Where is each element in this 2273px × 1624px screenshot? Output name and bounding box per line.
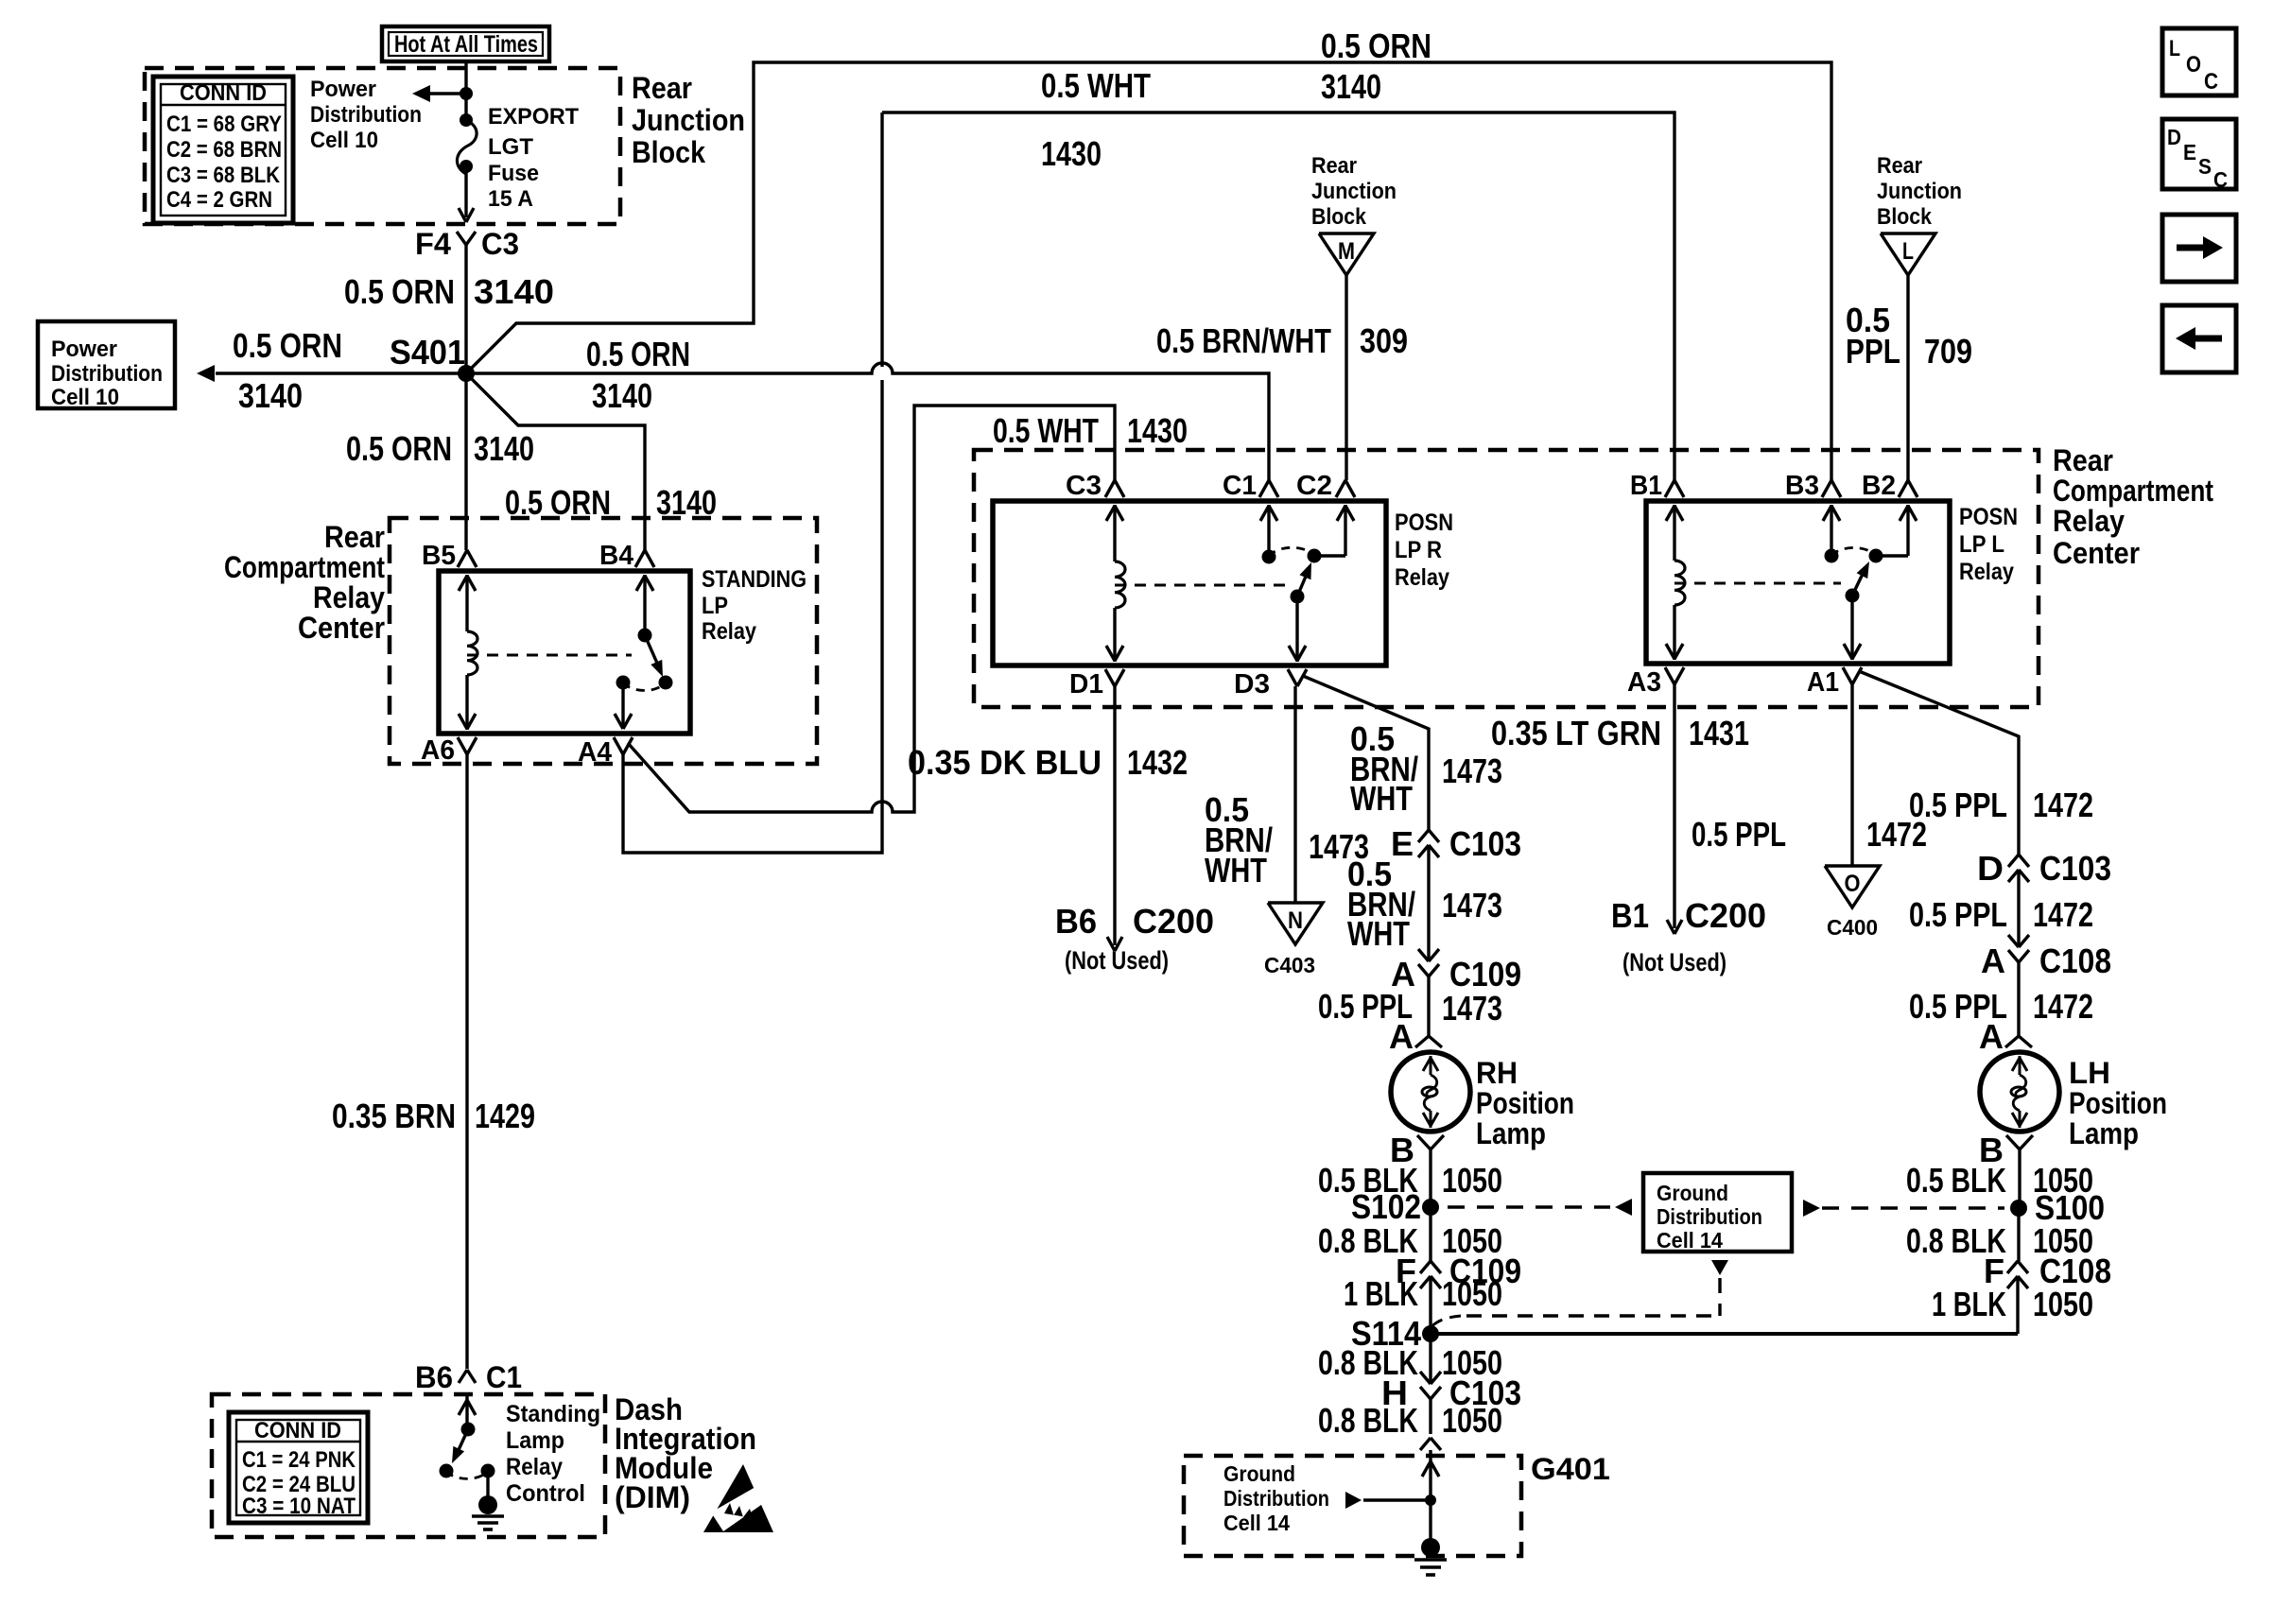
svg-text:C103: C103 [2039, 849, 2111, 888]
wire: 0.5 BRN/WHT 1473 E to A C109 [1347, 845, 1502, 961]
lamp pin A (LH) [1979, 1017, 2032, 1056]
svg-text:0.5 ORN: 0.5 ORN [346, 429, 452, 468]
svg-text:O: O [1845, 871, 1861, 897]
relay U1: STANDING LP Relay box [439, 571, 690, 734]
dashed drop: Ground Distribution to S114 run [1429, 1260, 1728, 1330]
svg-text:Center: Center [2053, 536, 2140, 570]
wire: battery feed into fuse [464, 61, 467, 120]
dashed enclosure: G401 ground distribution [1184, 1452, 1610, 1556]
junction block connector M [1319, 233, 1374, 275]
svg-text:PPL: PPL [1846, 332, 1900, 371]
svg-text:CONN ID: CONN ID [254, 1418, 341, 1443]
svg-text:E: E [2183, 140, 2196, 164]
svg-text:Rear: Rear [324, 520, 385, 554]
svg-text:C3 = 10 NAT: C3 = 10 NAT [242, 1494, 356, 1519]
svg-text:(Not Used): (Not Used) [1065, 946, 1169, 975]
pin B5 [422, 541, 477, 571]
relay U3 coil path [1666, 505, 1685, 660]
svg-text:LP: LP [702, 593, 728, 619]
svg-text:309: 309 [1360, 321, 1408, 360]
svg-text:0.5 PPL: 0.5 PPL [1909, 786, 2007, 824]
svg-text:L: L [1902, 238, 1914, 265]
CONN ID table (DIM) [229, 1412, 368, 1523]
svg-text:1050: 1050 [1442, 1161, 1502, 1200]
svg-text:1429: 1429 [475, 1097, 535, 1135]
svg-text:Distribution: Distribution [1223, 1486, 1329, 1511]
legend box LOC [2162, 28, 2236, 95]
svg-text:0.5 ORN: 0.5 ORN [233, 326, 342, 365]
svg-text:3140: 3140 [474, 272, 554, 311]
svg-text:0.5 PPL: 0.5 PPL [1909, 895, 2007, 934]
legend box arrow left [2162, 305, 2236, 372]
svg-text:WHT: WHT [1205, 851, 1267, 890]
svg-text:1430: 1430 [1041, 134, 1102, 173]
pin A1 [1807, 667, 1862, 698]
svg-text:C1 = 68 GRY: C1 = 68 GRY [166, 112, 282, 137]
svg-text:Cell 10: Cell 10 [310, 128, 378, 153]
pin B1 [1630, 471, 1684, 501]
svg-text:3140: 3140 [1321, 67, 1381, 106]
svg-text:Distribution: Distribution [310, 102, 422, 128]
svg-text:E: E [1391, 824, 1414, 863]
svg-text:Rear: Rear [1877, 153, 1922, 179]
relay U3: POSN LP L Relay box [1646, 501, 1950, 664]
wire: 0.5 ORN 3140 S401 down to relay B5 [346, 373, 534, 550]
pin B4 [599, 541, 654, 571]
svg-text:S102: S102 [1351, 1187, 1421, 1226]
svg-text:Ground: Ground [1223, 1461, 1295, 1486]
svg-text:0.5 ORN: 0.5 ORN [344, 272, 455, 311]
arrow to Power Distribution Cell 10 [412, 85, 466, 102]
svg-text:1050: 1050 [2033, 1285, 2093, 1323]
svg-text:1430: 1430 [1127, 411, 1188, 450]
relay U2: POSN LP R Relay box [993, 501, 1386, 665]
svg-text:Power: Power [310, 77, 376, 102]
wire: 0.5 BRN/WHT 309 from M to relay C2 [1156, 275, 1408, 480]
svg-text:1472: 1472 [2033, 895, 2093, 934]
dashed enclosure: Rear Junction Block [145, 68, 620, 224]
svg-text:0.5 PPL: 0.5 PPL [1692, 815, 1786, 854]
svg-text:RH: RH [1476, 1056, 1518, 1090]
svg-text:0.8 BLK: 0.8 BLK [1318, 1401, 1418, 1440]
svg-text:N: N [1288, 907, 1303, 934]
pin A4 [578, 737, 633, 768]
wire: 0.5 PPL 1472 to LH lamp pin A [1909, 962, 2093, 1036]
svg-text:A: A [1389, 1017, 1414, 1056]
svg-text:Junction: Junction [1311, 179, 1397, 204]
box: Ground Distribution Cell 14 [1643, 1173, 1792, 1253]
svg-text:Cell 14: Cell 14 [1223, 1511, 1290, 1535]
svg-text:C108: C108 [2039, 942, 2111, 980]
svg-text:A3: A3 [1627, 667, 1661, 698]
wire: 0.8 BLK 1050 S114 to H C103 [1318, 1334, 1502, 1384]
svg-text:Ground: Ground [1657, 1181, 1728, 1205]
svg-text:LP L: LP L [1959, 531, 2004, 558]
svg-text:0.35 BRN: 0.35 BRN [332, 1097, 456, 1135]
svg-text:C400: C400 [1827, 915, 1878, 940]
wire: 0.5 PPL 1472 from A1 to C400 O [1692, 684, 1927, 866]
svg-text:S401: S401 [390, 333, 465, 371]
relay U1 coil-switch dashed link [467, 654, 632, 657]
svg-text:(DIM): (DIM) [615, 1480, 690, 1514]
svg-text:C3 = 68 BLK: C3 = 68 BLK [166, 163, 281, 188]
ground G401 symbol [1414, 1538, 1447, 1575]
svg-text:Position: Position [2069, 1086, 2167, 1120]
svg-text:Block: Block [1877, 204, 1933, 230]
svg-text:(Not Used): (Not Used) [1622, 948, 1726, 976]
svg-text:O: O [2186, 52, 2201, 78]
lamp pin B (LH) [1979, 1131, 2033, 1169]
label: B1 C200 (Not Used) [1611, 896, 1766, 976]
relay U3 coil-switch dashed link [1674, 582, 1841, 585]
svg-text:Position: Position [1476, 1086, 1574, 1120]
svg-text:0.5 ORN: 0.5 ORN [586, 335, 690, 373]
label: Rear Compartment Relay Center (right) [2053, 443, 2213, 570]
svg-text:LP R: LP R [1395, 537, 1442, 563]
svg-text:L: L [2169, 36, 2180, 61]
svg-text:STANDING: STANDING [702, 566, 807, 593]
wire: ground drop inside G401 [1345, 1456, 1439, 1547]
svg-text:CONN ID: CONN ID [180, 80, 267, 106]
wire: 0.5 BRN/WHT 1473 from D3 to connector E C103 [1303, 676, 1502, 830]
label: Ground Distribution Cell 14 (G401) [1223, 1461, 1329, 1535]
svg-text:B1: B1 [1611, 896, 1649, 935]
svg-text:C200: C200 [1685, 896, 1766, 935]
svg-text:C2: C2 [1296, 471, 1332, 501]
wire: 0.5 BLK 1050 LH lamp to S100 [1906, 1149, 2093, 1208]
label: Rear Junction Block [632, 71, 745, 169]
wire: 0.8 BLK 1050 S100 to F C108 [1906, 1208, 2093, 1261]
svg-text:3140: 3140 [238, 376, 303, 415]
connector A / C108 [1981, 935, 2111, 980]
svg-text:C403: C403 [1264, 953, 1315, 977]
svg-text:Relay: Relay [1395, 564, 1449, 591]
svg-text:B4: B4 [599, 541, 633, 571]
svg-text:Relay: Relay [1959, 559, 2014, 585]
svg-text:A: A [1981, 942, 2005, 980]
svg-text:Relay: Relay [313, 580, 385, 614]
svg-text:1 BLK: 1 BLK [1344, 1274, 1418, 1313]
wire: 0.35 DK BLU 1432 from D1 (Not Used) [908, 686, 1188, 951]
label: Rear Junction Block (M) [1311, 153, 1397, 230]
wire: 0.5 BRN/WHT 1473 from D3 to C403 N [1205, 686, 1369, 903]
pin A3 [1627, 667, 1684, 698]
svg-text:G401: G401 [1531, 1452, 1610, 1486]
svg-text:Fuse: Fuse [488, 161, 539, 186]
wire: 0.5 ORN 3140 S401 to standing lamp relay B4 [466, 373, 717, 550]
label: Dash Integration Module (DIM) [615, 1392, 756, 1514]
svg-text:Cell 10: Cell 10 [51, 385, 119, 410]
splice S401 [390, 333, 475, 382]
svg-text:Power: Power [51, 337, 117, 362]
label: POSN LP R Relay [1395, 510, 1453, 591]
lamp pin B (RH) [1390, 1131, 1444, 1169]
relay U2 coil-switch dashed link [1115, 584, 1286, 587]
relay U1 switch [615, 575, 673, 729]
svg-text:Lamp: Lamp [1476, 1116, 1546, 1150]
connector B6/C1 [415, 1360, 522, 1394]
svg-text:Relay: Relay [506, 1454, 563, 1480]
svg-text:0.5 ORN: 0.5 ORN [1321, 26, 1431, 65]
wire: 0.5 ORN 3140 S401 up to rear junction block feed (top run) [466, 26, 1831, 480]
wire: 0.5 WHT 1430 from A4 diagonal to POSN LP R relay C3 (hop at x=933) [628, 406, 1188, 812]
svg-text:C: C [2213, 167, 2228, 192]
svg-text:0.5 BRN/WHT: 0.5 BRN/WHT [1156, 321, 1331, 360]
svg-text:1431: 1431 [1689, 714, 1749, 752]
wire: 0.35 BRN 1429 from A6 to DIM B6/C1 [332, 754, 535, 1369]
lamp pin A (RH) [1389, 1017, 1442, 1056]
label: STANDING LP Relay [702, 566, 807, 645]
svg-text:0.5 WHT: 0.5 WHT [993, 411, 1099, 450]
label: LH Position Lamp [2069, 1056, 2167, 1150]
svg-text:Block: Block [1311, 204, 1367, 230]
pin B2 [1862, 471, 1917, 501]
svg-text:Center: Center [298, 611, 385, 645]
pin D3 [1234, 669, 1307, 700]
svg-text:POSN: POSN [1395, 510, 1453, 536]
svg-text:1473: 1473 [1442, 886, 1502, 924]
fuse F4: EXPORT LGT Fuse 15 A [457, 113, 477, 222]
connector E / C103 [1391, 824, 1521, 863]
connector D / C103 [1977, 849, 2111, 888]
power feed box: Hot At All Times [382, 26, 549, 61]
pin B3 [1785, 471, 1841, 501]
relay U1 coil path [459, 575, 477, 730]
svg-text:Relay: Relay [2053, 504, 2125, 538]
svg-text:WHT: WHT [1347, 914, 1410, 953]
connector H / C103 [1381, 1372, 1521, 1412]
svg-text:Distribution: Distribution [51, 361, 163, 387]
junction dot at fuse input [460, 87, 473, 100]
svg-text:3140: 3140 [592, 376, 652, 415]
pin C1 [1223, 471, 1278, 501]
svg-text:C200: C200 [1133, 902, 1214, 941]
svg-text:C2 = 68 BRN: C2 = 68 BRN [166, 137, 282, 163]
svg-text:POSN: POSN [1959, 504, 2018, 530]
wire: S114 to LH lamp ground run [1431, 1332, 2018, 1336]
legend box DESC [2162, 119, 2236, 192]
svg-text:Junction: Junction [1877, 179, 1962, 204]
svg-text:0.35 DK BLU: 0.35 DK BLU [908, 743, 1102, 782]
dashed enclosure: Dash Integration Module [212, 1394, 605, 1537]
legend box arrow right [2162, 215, 2236, 282]
wire: 0.5 ORN 3140 to Power Distribution (left arrow) [197, 326, 466, 415]
relay U2 switch [1260, 505, 1354, 662]
svg-text:0.35 LT GRN: 0.35 LT GRN [1491, 714, 1661, 752]
svg-text:B5: B5 [422, 541, 456, 571]
splice S102 [1351, 1187, 1439, 1226]
svg-text:LGT: LGT [488, 134, 533, 160]
svg-text:Compartment: Compartment [2053, 474, 2213, 508]
svg-text:1050: 1050 [1442, 1401, 1502, 1440]
splice S100 [2010, 1188, 2105, 1227]
box: Power Distribution Cell 10 (left) [38, 321, 175, 410]
label: Rear Junction Block (L) [1877, 153, 1962, 230]
svg-text:LH: LH [2069, 1056, 2110, 1090]
wire: 0.5 ORN 3140 S401 to POSN LP R relay C1 (hop at x=933) [466, 335, 1269, 480]
wire: 0.35 LT GRN 1431 from A3 (Not Used) [1491, 684, 1749, 934]
svg-text:B2: B2 [1862, 471, 1896, 501]
svg-text:Standing: Standing [506, 1401, 600, 1427]
DIM standing lamp relay control switch [440, 1394, 505, 1529]
svg-text:1473: 1473 [1442, 752, 1502, 790]
svg-text:C1: C1 [486, 1360, 522, 1394]
svg-text:0.5 BLK: 0.5 BLK [1906, 1161, 2006, 1200]
svg-text:C: C [2204, 69, 2218, 95]
label: Power Distribution Cell 10 (top) [310, 77, 422, 153]
wire: 0.5 PPL 709 from L to relay B2 [1846, 275, 1972, 480]
label: EXPORT LGT Fuse 15 A [488, 104, 579, 212]
svg-text:Compartment: Compartment [224, 550, 385, 584]
wire: 0.5 PPL 1472 D to A C108 [1909, 870, 2093, 947]
dashed wire: Ground Distribution box right to S100 [1803, 1200, 2004, 1217]
svg-text:EXPORT: EXPORT [488, 104, 579, 130]
svg-text:S: S [2198, 154, 2212, 179]
connector F / C108 [1984, 1252, 2111, 1290]
label: Standing Lamp Relay Control [506, 1401, 600, 1507]
svg-text:C103: C103 [1449, 824, 1521, 863]
svg-text:C3: C3 [1066, 471, 1102, 501]
svg-text:A6: A6 [421, 735, 455, 766]
svg-text:C4 = 2 GRN: C4 = 2 GRN [166, 187, 272, 213]
relay U2 coil path [1106, 505, 1125, 662]
label: POSN LP L Relay [1959, 504, 2018, 585]
wire: 1 BLK 1050 F C109 to S114 [1344, 1274, 1502, 1334]
splice S114 [1351, 1314, 1439, 1353]
dashed wire: S102 to Ground Distribution Cell 14 [1448, 1199, 1632, 1216]
svg-text:Lamp: Lamp [506, 1427, 564, 1454]
pin C2 [1296, 471, 1355, 501]
svg-text:15 A: 15 A [488, 186, 533, 212]
svg-text:D1: D1 [1069, 669, 1103, 700]
dashed enclosure: Rear Compartment Relay Center (left) [390, 518, 817, 764]
svg-text:Hot At All Times: Hot At All Times [394, 31, 538, 58]
wire: 0.5 WHT 1430 from A4 up and across to POSN LP L relay B1 [623, 66, 1674, 853]
label: RH Position Lamp [1476, 1056, 1574, 1150]
connector A / C109 [1391, 949, 1521, 993]
svg-text:C109: C109 [1449, 955, 1521, 993]
svg-text:1050: 1050 [1442, 1274, 1502, 1313]
dashed enclosure: Rear Compartment Relay Center (right) [974, 450, 2039, 707]
svg-text:Block: Block [632, 135, 705, 169]
svg-text:C3: C3 [481, 227, 519, 261]
pin C3 [1066, 471, 1124, 501]
svg-text:Rear: Rear [2053, 443, 2113, 477]
svg-text:Lamp: Lamp [2069, 1116, 2139, 1150]
label: B6 C200 (Not Used) [1055, 902, 1214, 975]
lamp: RH Position Lamp [1391, 1052, 1470, 1132]
svg-text:C1 = 24 PNK: C1 = 24 PNK [242, 1447, 356, 1473]
svg-text:Cell 14: Cell 14 [1657, 1228, 1723, 1253]
wire: 0.5 ORN 3140 fuse to S401 [344, 245, 554, 373]
junction block connector O (C400) [1825, 866, 1880, 940]
wire: 0.5 PPL 1473 to RH position lamp pin A [1318, 976, 1502, 1036]
svg-text:D3: D3 [1234, 669, 1270, 700]
junction block connector N (C403) [1264, 903, 1323, 977]
pin D1 [1069, 669, 1124, 700]
wire: 0.5 BLK 1050 lamp B to S102 [1318, 1149, 1502, 1207]
svg-text:B3: B3 [1785, 471, 1819, 501]
svg-text:1472: 1472 [2033, 987, 2093, 1026]
svg-text:WHT: WHT [1350, 779, 1413, 818]
svg-text:1432: 1432 [1127, 743, 1188, 782]
svg-text:0.5 WHT: 0.5 WHT [1041, 66, 1151, 105]
wire: 1 BLK 1050 F C108 down to S114 run [1932, 1276, 2093, 1334]
svg-text:Control: Control [506, 1480, 585, 1507]
svg-text:Rear: Rear [1311, 153, 1357, 179]
junction block connector L [1881, 233, 1935, 275]
svg-text:709: 709 [1924, 332, 1972, 371]
svg-text:3140: 3140 [474, 429, 534, 468]
svg-text:B6: B6 [415, 1360, 453, 1394]
relay U3 switch [1823, 505, 1917, 660]
svg-text:1472: 1472 [2033, 786, 2093, 824]
svg-text:Junction: Junction [632, 103, 745, 137]
svg-text:1473: 1473 [1442, 989, 1502, 1028]
pin A6 [421, 735, 477, 766]
svg-text:Distribution: Distribution [1657, 1204, 1762, 1229]
ESD sensitivity symbol [703, 1464, 773, 1532]
wire: 0.8 BLK 1050 H C103 to G401 [1318, 1399, 1502, 1456]
wire: 0.8 BLK 1050 S102 to F C109 [1318, 1207, 1502, 1261]
svg-text:B6: B6 [1055, 902, 1097, 941]
connector F4/C3 [415, 227, 519, 261]
svg-text:Rear: Rear [632, 71, 692, 105]
svg-text:F4: F4 [415, 227, 451, 261]
label: Rear Compartment Relay Center (left) [224, 520, 385, 645]
svg-text:D: D [2167, 125, 2181, 149]
lamp: LH Position Lamp [1980, 1052, 2059, 1132]
svg-text:1 BLK: 1 BLK [1932, 1285, 2006, 1323]
connector F / C109 [1396, 1252, 1521, 1290]
svg-text:M: M [1338, 238, 1355, 265]
svg-text:Relay: Relay [702, 618, 756, 645]
wire: 0.5 PPL 1472 from A1 diagonal to D C103 [1859, 671, 2093, 855]
svg-text:C1: C1 [1223, 471, 1257, 501]
svg-text:D: D [1977, 849, 2004, 888]
svg-text:B1: B1 [1630, 471, 1662, 501]
svg-text:A1: A1 [1807, 667, 1839, 698]
svg-text:A: A [1979, 1017, 2004, 1056]
CONN ID table (Rear Junction Block) [153, 77, 293, 223]
svg-text:A4: A4 [578, 737, 612, 768]
